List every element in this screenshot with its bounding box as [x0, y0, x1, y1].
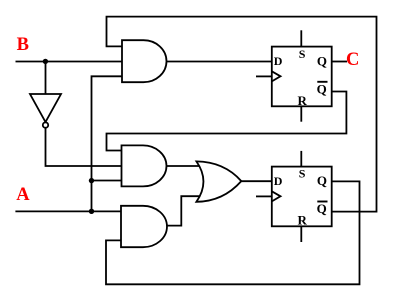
wire A input [15, 210, 121, 212]
and gate G2 [122, 145, 167, 186]
wire inverter output to AND2 [46, 128, 122, 166]
flip-flop U1 [272, 47, 332, 107]
wire B to inverter [45, 62, 47, 95]
wire B input [16, 61, 123, 63]
flip-flop U2 pin labels [274, 167, 328, 228]
junction node A to AND2 [89, 178, 94, 183]
svg-text:S: S [299, 47, 306, 61]
svg-text:D: D [274, 54, 283, 68]
or gate G5 [196, 161, 241, 201]
svg-text:A: A [16, 185, 30, 205]
svg-text:Q: Q [317, 173, 327, 188]
wire AND3 output to OR [167, 196, 204, 225]
svg-text:R: R [298, 93, 308, 108]
wire U2 R stub [300, 226, 302, 242]
and gate G3 [121, 206, 167, 247]
svg-text:D: D [274, 174, 283, 188]
flip-flop U2 [272, 167, 332, 227]
flip-flop U1 pin labels [274, 47, 328, 108]
svg-text:Q: Q [317, 54, 327, 69]
wire U1 R stub [300, 106, 302, 121]
junction node B [43, 59, 48, 64]
wire U1 Qbar feedback to AND2 [107, 92, 347, 151]
wire A riser to AND1 [92, 76, 123, 211]
wire U2 Q feedback to AND3 [106, 181, 360, 284]
wire OR output to U2 D [241, 180, 271, 182]
junction node A [89, 209, 94, 214]
wire AND2 output to OR [167, 165, 204, 167]
and gate G1 [122, 40, 166, 82]
wire U1 clock stub [256, 75, 272, 77]
wire U2 S stub [300, 151, 302, 167]
svg-text:B: B [17, 35, 29, 55]
inverter G4 [30, 94, 61, 122]
svg-text:Q: Q [317, 81, 327, 96]
svg-text:S: S [299, 167, 306, 181]
wire U1 Q output to C [332, 61, 347, 63]
svg-text:Q: Q [317, 201, 327, 216]
svg-text:C: C [346, 50, 359, 70]
wire A branch to AND2 [92, 180, 122, 182]
wire U2 Qbar feedback to AND1 [107, 17, 377, 212]
wire AND1 output to U1 D [167, 61, 272, 63]
wire U1 S stub [300, 30, 302, 46]
wire U2 clock stub [256, 195, 272, 197]
svg-text:R: R [298, 213, 308, 228]
